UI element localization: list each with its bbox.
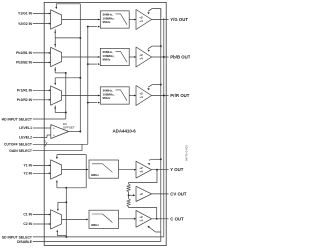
wire C mux bottom select tap (56, 230, 58, 232)
svg-text:04770-0-001: 04770-0-001 (185, 145, 189, 161)
filter F1 selectable 36MHz/108MHz/9MHz low-pass (100, 11, 129, 28)
wire Y output down to summing resistor (129, 170, 157, 184)
wire C mux output to C filter (62, 218, 88, 220)
svg-text:+4: +4 (139, 19, 143, 23)
svg-text:Y2 IN: Y2 IN (24, 172, 33, 176)
junction dot Y output summing tap (156, 169, 158, 171)
svg-text:CUTOFF SELECT: CUTOFF SELECT (4, 143, 33, 147)
wire select bus B vertical (79, 4, 81, 132)
svg-text:9MHz: 9MHz (103, 20, 111, 24)
mux M2 2:1 input multiplexer (51, 47, 62, 66)
wire C2 IN into C mux (33, 223, 50, 225)
svg-text:9MHz: 9MHz (91, 223, 99, 227)
filter F2 selectable 36MHz/108MHz/9MHz low-pass (100, 48, 129, 65)
svg-text:9MHz: 9MHz (91, 173, 99, 177)
wire Y filter output to Y amp (119, 169, 136, 171)
wire Pb2/B2 IN into mux2 (33, 61, 50, 63)
wire feedback loop into C amp from disable rail (156, 231, 161, 233)
svg-text:SD INPUT SELECT: SD INPUT SELECT (2, 236, 33, 240)
chip boundary box (44, 2, 166, 245)
wire cutoff-select tap into filter1 (87, 26, 89, 28)
svg-text:CV OUT: CV OUT (170, 191, 187, 196)
wire mux3 output to filter3 (62, 95, 100, 97)
wire select rail to Y mux top (57, 154, 86, 156)
svg-text:+: + (53, 134, 55, 138)
wire CV amp output to CV OUT pin (152, 193, 169, 195)
wire mux2 output to filter2 (62, 56, 100, 58)
svg-text:HD INPUT SELECT: HD INPUT SELECT (2, 117, 33, 121)
wire cutoff-select tap into filter2 (87, 63, 89, 65)
node CV summing junction (128, 194, 130, 196)
svg-text:Y1/G1 IN: Y1/G1 IN (18, 12, 32, 16)
wire cutoff-select tap into filter3 (87, 102, 89, 104)
svg-text:ADA4410-6: ADA4410-6 (113, 129, 137, 134)
svg-text:+4: +4 (139, 169, 143, 173)
svg-text:Y1 IN: Y1 IN (24, 164, 33, 168)
wire select bus A vertical (65, 73, 67, 119)
wire HD INPUT SELECT (33, 118, 66, 120)
wire Pr1/R1 IN into mux3 (33, 89, 50, 91)
svg-text:DISABLE: DISABLE (17, 240, 33, 244)
svg-text:LEVEL2: LEVEL2 (19, 136, 32, 140)
junction dot bus2 ch2 output (163, 56, 165, 58)
wire amp3 output to Pr/R OUT pin (152, 95, 169, 97)
wire Pb1/B1 IN into mux2 (33, 52, 50, 54)
wire amp2 output to Pb/B OUT pin (152, 56, 169, 58)
mux MC 2:1 C-input multiplexer (51, 210, 62, 229)
wire select tap mux2 bottom (54, 67, 56, 73)
svg-text:C OUT: C OUT (170, 216, 184, 221)
svg-text:Pr/R OUT: Pr/R OUT (170, 93, 189, 98)
mux M1 2:1 input multiplexer (51, 10, 62, 29)
wire Pr2/R2 IN into mux3 (33, 99, 50, 101)
svg-text:+4: +4 (139, 218, 143, 222)
junction dot C output summing tap (156, 218, 158, 220)
op-amp ACV composite +2 driver (136, 186, 152, 201)
mux M3 2:1 input multiplexer (51, 86, 62, 105)
wire cutoff bus vertical (87, 27, 89, 145)
svg-text:+: + (53, 127, 55, 131)
wire LEVEL2 into offset amp (33, 137, 47, 139)
wire GAIN SELECT (33, 150, 82, 152)
mux MY 2:1 Y-input multiplexer (51, 160, 62, 179)
wire Y mux bottom select tap (56, 180, 58, 182)
wire select tap mux1/mux2 (54, 29, 56, 47)
op-amp AY gain +2/+4 Y output driver (136, 161, 152, 178)
op-amp A3 gain +2/+4 output driver (136, 86, 152, 106)
junction dot bus2 ch3 output (163, 95, 165, 97)
wire DC offset output to select bus B (69, 131, 81, 133)
wire top select rail to mux1 top (56, 3, 80, 5)
wire filter1 output to amp1 (129, 19, 135, 21)
wire feedback loop into Y amp (160, 158, 162, 160)
wire Y amp output to Y OUT pin (152, 169, 169, 171)
wire Y1/G1 IN into mux1 (33, 13, 50, 15)
wire mux1 output to filter1 (62, 19, 100, 21)
svg-text:Y OUT: Y OUT (170, 167, 183, 172)
wire Y2/G2 IN into mux1 (33, 23, 50, 25)
wire amp1 output to Y/G OUT pin (152, 19, 169, 21)
svg-text:+4: +4 (139, 95, 143, 99)
svg-text:GAIN SELECT: GAIN SELECT (9, 149, 33, 153)
resistor R2 (C summing) (128, 195, 130, 199)
op-amp A2 gain +2/+4 output driver (136, 47, 152, 67)
wire resistor R1 to CV node (128, 192, 130, 196)
svg-text:+2: +2 (139, 192, 143, 196)
op-amp DC OFFSET level amplifier (51, 125, 69, 139)
svg-text:OFFSET: OFFSET (63, 126, 75, 130)
wire C filter output to C amp (119, 218, 136, 220)
wire C amp output to C OUT pin (152, 218, 169, 220)
svg-text:Y2/G2 IN: Y2/G2 IN (18, 22, 32, 26)
svg-text:Pr1/R1 IN: Pr1/R1 IN (17, 89, 33, 93)
wire SD INPUT SELECT rail to bus2 (33, 236, 164, 238)
svg-text:C2 IN: C2 IN (23, 222, 32, 226)
wire LEVEL1 into offset amp (33, 127, 51, 129)
op-amp AC gain +2/+4 C output driver (136, 210, 152, 227)
wire disable bus vertical (feedback rail) (160, 9, 162, 232)
filter F3 selectable 36MHz/108MHz/9MHz low-pass (100, 87, 129, 104)
wire Y mux output to Y filter (62, 169, 88, 171)
wire select tap mux3 bottom (54, 105, 56, 112)
wire Y2 IN into Y mux (33, 172, 50, 174)
svg-text:LEVEL1: LEVEL1 (19, 126, 32, 130)
svg-text:Y/G OUT: Y/G OUT (170, 17, 188, 22)
wire C1 IN into C mux (33, 214, 50, 216)
resistor R1 (Y summing) (127, 184, 131, 192)
wire C mux top select tap (65, 201, 67, 203)
wire sd-select bus vertical (163, 18, 165, 237)
wire filter2 output to amp2 (129, 56, 135, 58)
op-amp A1 gain +2/+4 output driver (136, 10, 152, 30)
filter FC 9MHz low-pass (89, 210, 119, 228)
svg-text:9MHz: 9MHz (103, 96, 111, 100)
svg-text:C1 IN: C1 IN (23, 213, 32, 217)
svg-text:Pb/B OUT: Pb/B OUT (170, 55, 190, 60)
wire resistor R2 down to C output tap (129, 207, 157, 219)
svg-text:9MHz: 9MHz (103, 58, 111, 62)
wire DISABLE rail to disable bus (33, 240, 161, 242)
svg-text:Pb1/B1 IN: Pb1/B1 IN (16, 51, 32, 55)
wire sd-select vertical right (85, 155, 87, 188)
wire feedback loop into amp1 (152, 9, 161, 18)
svg-text:Pr2/R2 IN: Pr2/R2 IN (17, 98, 33, 102)
wire sd-select riser vertical (65, 188, 67, 237)
wire select tap mux3 top (55, 77, 80, 79)
svg-text:Pb2/B2 IN: Pb2/B2 IN (16, 61, 32, 65)
wire feedback loop into amp2 (160, 45, 162, 47)
wire feedback loop into amp3 (160, 84, 162, 86)
wire CV node into CV amp (129, 194, 133, 196)
wire Y1 IN into Y mux (33, 164, 50, 166)
filter FY 9MHz low-pass (89, 160, 119, 178)
wire filter3 output to amp3 (129, 95, 135, 97)
svg-text:+4: +4 (139, 57, 143, 61)
wire CUTOFF SELECT with bus-width slash 2 (33, 143, 88, 145)
